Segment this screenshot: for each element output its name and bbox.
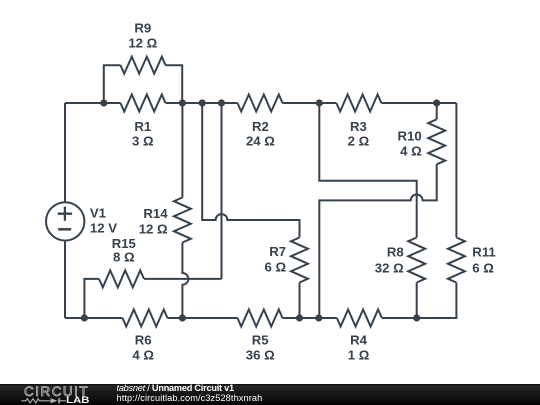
svg-text:R14: R14 <box>143 206 168 221</box>
wire R14 bottom lead with hop over R15 wire <box>182 243 188 319</box>
node top rail / R7 branch junction <box>199 99 206 106</box>
wire R9 right riser <box>166 65 183 103</box>
svg-text:R7: R7 <box>269 244 286 259</box>
voltage source V1 <box>46 202 84 240</box>
svg-text:4 Ω: 4 Ω <box>132 348 154 363</box>
resistor R8 <box>408 238 425 283</box>
wire from top rail node down and across to R8 top <box>319 103 416 238</box>
wire top rail between R1 and R2 <box>166 102 238 104</box>
svg-text:R2: R2 <box>252 119 269 134</box>
svg-text:R9: R9 <box>134 21 151 36</box>
wire bottom rail between R6 and R5 <box>168 317 238 319</box>
wire R7 bottom lead <box>299 283 301 319</box>
node bottom rail / R14 junction <box>179 314 186 321</box>
svg-text:12 Ω: 12 Ω <box>128 36 157 51</box>
resistor R11 <box>448 238 465 283</box>
resistor R7 <box>291 238 308 283</box>
node top rail / R15 branch junction <box>218 99 225 106</box>
svg-text:http://circuitlab.com/c3z528th: http://circuitlab.com/c3z528thxnrah <box>117 393 263 403</box>
wire top rail between R2 and R3 <box>283 102 337 104</box>
svg-text:32 Ω: 32 Ω <box>375 260 404 275</box>
wire R14 top lead <box>181 103 183 198</box>
CircuitLab logo resistor-diode glyph <box>21 399 50 403</box>
node bottom rail / R8 R11 junction <box>413 314 420 321</box>
svg-text:12 Ω: 12 Ω <box>139 221 168 236</box>
wire riser from top rail to R15 right lead <box>221 103 223 279</box>
wire bottom rail left segment <box>65 317 123 319</box>
wire R8 bottom lead <box>416 283 418 319</box>
node top rail / R8 branch junction <box>316 99 323 106</box>
resistor R2 <box>238 95 283 112</box>
wire from top rail node to R7 with hop over riser <box>202 103 299 238</box>
svg-text:R4: R4 <box>350 333 368 348</box>
svg-text:R10: R10 <box>397 128 421 143</box>
footer bar background <box>0 384 540 405</box>
svg-text:R11: R11 <box>472 245 495 260</box>
resistor R9 <box>121 57 166 74</box>
resistor R15 <box>99 270 144 287</box>
svg-text:R1: R1 <box>134 119 151 134</box>
node bottom rail / R7 junction <box>296 314 303 321</box>
node top rail / R10 junction <box>433 99 440 106</box>
svg-text:24 Ω: 24 Ω <box>246 134 275 149</box>
wire R11 bottom lead to bottom rail <box>417 283 457 319</box>
svg-text:tabsnet / Unnamed Circuit v1: tabsnet / Unnamed Circuit v1 <box>117 384 235 393</box>
wire from V1 negative terminal to bottom rail <box>64 241 66 319</box>
svg-text:8 Ω: 8 Ω <box>113 249 135 264</box>
svg-text:LAB: LAB <box>66 395 89 405</box>
node bottom rail / R15 junction <box>81 314 88 321</box>
resistor R14 <box>174 198 191 243</box>
resistor R4 <box>337 310 382 327</box>
wire R15 right lead <box>144 278 222 280</box>
resistor R3 <box>336 95 381 112</box>
resistor R1 <box>121 95 166 112</box>
wire R11 top riser from top rail <box>455 103 457 238</box>
node bottom rail / R10 branch junction <box>315 314 322 321</box>
svg-text:12 V: 12 V <box>90 220 117 235</box>
svg-text:1 Ω: 1 Ω <box>348 348 370 363</box>
svg-text:V1: V1 <box>90 206 106 221</box>
resistor R10 <box>428 119 445 164</box>
svg-text:R8: R8 <box>387 245 404 260</box>
svg-text:6 Ω: 6 Ω <box>265 260 287 275</box>
wire top rail between R3 and corner to R11 <box>381 102 456 104</box>
svg-text:6 Ω: 6 Ω <box>472 260 494 275</box>
wire from top rail to V1 positive terminal <box>64 103 66 203</box>
wire top rail left segment <box>65 102 121 104</box>
svg-text:R3: R3 <box>350 119 367 134</box>
svg-text:R6: R6 <box>135 333 152 348</box>
svg-text:2 Ω: 2 Ω <box>348 134 370 149</box>
wire bottom rail between R5 and R4 <box>283 317 337 319</box>
svg-text:3 Ω: 3 Ω <box>132 134 154 149</box>
svg-text:4 Ω: 4 Ω <box>400 143 422 158</box>
node top rail / R14 junction <box>179 99 186 106</box>
wire R9 left riser <box>104 65 121 103</box>
wire R10 bottom lead across to bottom rail with hop over R8 riser <box>319 164 436 318</box>
svg-text:R5: R5 <box>252 333 269 348</box>
resistor R6 <box>123 310 168 327</box>
node top rail / R9 junction <box>100 99 107 106</box>
wire R15 left lead down to bottom rail <box>84 279 99 318</box>
svg-text:36 Ω: 36 Ω <box>246 348 275 363</box>
resistor R5 <box>238 310 283 327</box>
wire R10 top lead <box>436 103 438 119</box>
wire bottom rail between R4 and R8 node <box>382 317 417 319</box>
